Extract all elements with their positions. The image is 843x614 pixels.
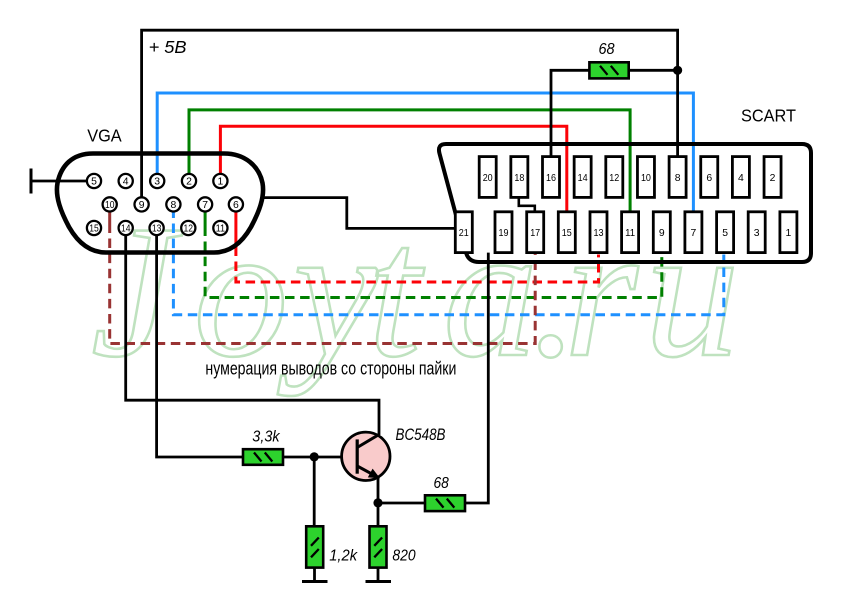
SCART pin 20 [479,157,496,198]
svg-text:1: 1 [786,228,792,239]
svg-text:3: 3 [754,228,760,239]
VGA pin 8 [166,197,180,211]
wire VGA shell to pin21-SCART [263,198,455,229]
svg-text:13: 13 [594,228,604,239]
svg-text:6: 6 [706,173,712,184]
svg-text:BC548B: BC548B [396,426,446,444]
SCART pin 21 [455,212,472,253]
SCART pin 5 [717,212,734,253]
svg-text:820: 820 [392,547,415,564]
svg-text:SCART: SCART [741,106,796,126]
svg-text:5: 5 [722,228,728,239]
wire maroon dashed pin10-VGA to pin17-SCART [110,212,536,344]
svg-text:1,2k: 1,2k [329,547,358,564]
svg-text:11: 11 [216,224,226,235]
VGA pin 15 [87,221,101,235]
junction dot at resistor 68 / pin8 rail [673,66,682,75]
VGA pin 4 [119,174,133,188]
transistor Q1 BC548B [342,432,390,480]
VGA pin 13 [150,221,164,235]
wire red dashed pin6-VGA to pin13-SCART [236,211,599,282]
svg-text:нумерация выводов со стороны п: нумерация выводов со стороны пайки [205,358,456,379]
VGA pin 12 [181,221,195,235]
SCART pin 12 [606,157,623,198]
VGA pin 2 [182,174,196,188]
svg-text:6: 6 [233,200,239,211]
svg-text:5: 5 [91,177,97,188]
svg-text:21: 21 [459,228,469,239]
wire resistor 68 right lead [629,69,678,72]
SCART pin 18 [511,157,528,198]
svg-text:68: 68 [599,41,615,58]
SCART pin 7 [685,212,702,253]
wire blue solid pin3-VGA to pin7-SCART [157,93,693,212]
svg-text:18: 18 [514,173,524,184]
svg-text:10: 10 [641,173,651,184]
wire pin14-VGA to transistor collector [126,235,379,435]
SCART pin 19 [495,212,512,253]
svg-text:12: 12 [609,173,619,184]
VGA pin 11 [213,221,227,235]
SCART pin 3 [748,212,765,253]
svg-text:8: 8 [675,173,681,184]
resistor 68 top [589,62,628,78]
VGA pin 3 [150,174,164,188]
SCART pin 17 [527,212,544,253]
svg-text:12: 12 [184,224,194,235]
ground bar under 1,2k [302,580,328,583]
VGA pin 14 [119,221,133,235]
wire jumper pin18 to pin17 SCART [519,197,535,211]
SCART pin 14 [574,157,591,198]
svg-text:7: 7 [691,228,697,239]
VGA pin 1 [213,174,227,188]
wire emitter to node and resistor 68 [378,476,425,503]
SCART pin 13 [590,212,607,253]
SCART pin 15 [558,212,575,253]
SCART pin 6 [701,157,718,198]
SCART pin 16 [543,157,560,198]
svg-text:14: 14 [121,224,131,235]
resistor 68 bottom [425,495,465,511]
wire resistor 68 to pin20-SCART [465,253,488,503]
svg-text:4: 4 [738,173,744,184]
svg-text:2: 2 [186,177,192,188]
svg-text:68: 68 [434,475,450,492]
SCART pin 11 [622,212,639,253]
svg-text:+ 5В: + 5В [149,37,187,57]
svg-text:2: 2 [770,173,776,184]
svg-text:VGA: VGA [87,125,122,145]
svg-text:7: 7 [202,200,208,211]
resistor 820 [370,526,387,567]
wire +5V rail pin9-VGA to pin8-SCART [142,30,678,197]
wire base node to resistor 1,2k [313,457,316,526]
svg-text:8: 8 [171,200,177,211]
SCART pin 9 [653,212,670,253]
wire resistor 1,2k to ground [313,568,316,582]
SCART connector shell [439,144,811,262]
junction dot emitter node [373,498,382,507]
ground bar under 820 [366,580,392,583]
wire green dashed pin7-VGA to pin9-SCART [205,211,662,298]
wire resistor 820 to ground [377,568,380,582]
svg-text:15: 15 [89,224,99,235]
svg-text:1: 1 [218,177,224,188]
SCART pin 1 [780,212,797,253]
VGA pin 7 [198,197,212,211]
svg-text:9: 9 [659,228,665,239]
wire pin13-VGA to resistor 3,3k [157,235,243,457]
VGA pin 5 [87,174,101,188]
wire emitter node to resistor 820 [377,503,380,526]
wire pin5-VGA to terminal [31,180,88,183]
resistor 1,2k [306,526,323,567]
svg-text:16: 16 [546,173,556,184]
VGA pin 9 [135,197,149,211]
svg-text:3: 3 [154,177,160,188]
svg-text:10: 10 [105,200,115,211]
svg-text:17: 17 [530,228,540,239]
wire blue dashed pin8-VGA to pin5-SCART [173,211,723,315]
resistor 3,3k [243,449,283,465]
SCART pin 8 [669,157,686,198]
wire green solid pin2-VGA to pin11-SCART [189,110,630,212]
svg-text:11: 11 [625,228,635,239]
VGA connector shell [57,154,263,253]
svg-text:9: 9 [139,200,145,211]
terminal bar [30,169,33,194]
svg-text:3,3k: 3,3k [252,429,280,446]
svg-text:4: 4 [123,177,129,188]
SCART pin 2 [764,157,781,198]
VGA pin 6 [229,197,243,211]
junction dot base node [310,452,319,461]
svg-text:13: 13 [152,224,162,235]
wire red solid pin1-VGA to pin15-SCART [220,126,566,212]
svg-text:20: 20 [483,173,493,184]
svg-text:14: 14 [578,173,588,184]
VGA pin 10 [103,197,117,211]
svg-text:15: 15 [562,228,572,239]
SCART pin 10 [637,157,654,198]
svg-text:19: 19 [499,228,509,239]
wire resistor 68 left lead to pin16-SCART [551,70,589,157]
SCART pin 4 [732,157,749,198]
wire base node to transistor base [283,456,356,459]
